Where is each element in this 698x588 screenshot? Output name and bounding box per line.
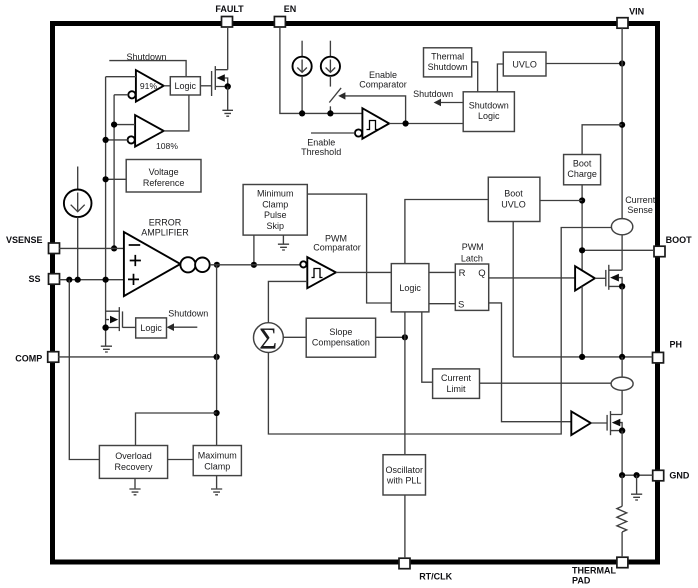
svg-text:Enable: Enable	[369, 70, 397, 80]
logic U-fault	[170, 77, 200, 95]
wire low side FET source to GND rail	[621, 431, 623, 476]
wire overload recovery to maximum clamp	[168, 459, 194, 461]
wire logic to latch R	[429, 271, 455, 273]
svg-text:Shutdown: Shutdown	[413, 89, 453, 99]
svg-text:FAULT: FAULT	[215, 4, 244, 14]
maximum clamp box	[193, 446, 241, 476]
wire minimum clamp drop to error amp output	[253, 235, 255, 265]
wire driver output to low side FET gate	[591, 422, 607, 424]
ground (minimum clamp)	[278, 235, 289, 250]
wire error amp output to PWM comparator	[210, 264, 301, 266]
minimum clamp pulse skip box	[243, 185, 307, 236]
svg-text:Boot: Boot	[504, 189, 523, 199]
svg-text:SS: SS	[28, 274, 40, 284]
svg-text:Minimum: Minimum	[257, 189, 294, 199]
junction	[634, 472, 640, 478]
wire sigma to PWM comparator lower input	[268, 281, 307, 322]
wire SS	[59, 279, 124, 281]
wire boot charge down to BOOT rail	[581, 185, 583, 271]
current source I-SS	[64, 167, 92, 280]
svg-text:PAD: PAD	[572, 576, 591, 586]
junction	[66, 277, 72, 283]
wire UVLO to shutdown logic	[497, 64, 503, 92]
slope compensation box	[306, 318, 375, 357]
voltage reference box	[126, 160, 201, 193]
svg-text:Maximum: Maximum	[198, 451, 237, 461]
wire transistor source down	[227, 87, 229, 111]
gm output circles	[180, 257, 209, 272]
pin BOOT	[654, 235, 692, 257]
svg-text:Oscillator: Oscillator	[385, 465, 423, 475]
wire rail to 108% inverting input	[106, 139, 128, 141]
svg-text:Current: Current	[441, 373, 472, 383]
svg-text:Skip: Skip	[266, 221, 284, 231]
node Current Sense label (high side)	[625, 195, 656, 215]
junction	[619, 60, 625, 66]
gate driver high side	[575, 266, 595, 290]
svg-text:Enable: Enable	[307, 137, 335, 147]
wire EN pin down and right to enable comparator	[280, 27, 363, 113]
pin THERMAL PAD	[572, 557, 628, 585]
junction	[327, 110, 333, 116]
svg-text:Shutdown: Shutdown	[469, 100, 509, 110]
junction	[103, 277, 109, 283]
pin PH	[653, 340, 683, 363]
wire thermal shutdown to shutdown logic	[472, 62, 478, 92]
current sense element (low side)	[611, 377, 633, 390]
wire boot UVLO left to logic	[405, 200, 488, 264]
wire PH rail	[513, 356, 652, 358]
svg-text:Logic: Logic	[175, 81, 197, 91]
svg-text:Comparator: Comparator	[313, 243, 361, 253]
node feedback rail (VSENSE to 91% -, 108% +)	[113, 95, 115, 249]
IC outer boundary	[53, 24, 658, 563]
svg-text:Latch: Latch	[461, 253, 483, 263]
wire driver output to high side FET gate	[595, 277, 606, 279]
wire current limit to low side current sense	[480, 382, 612, 384]
svg-text:Shutdown: Shutdown	[428, 62, 468, 72]
transistor Q-fault	[212, 66, 231, 96]
wire rail to voltage reference	[106, 178, 127, 180]
pin VSENSE	[6, 235, 60, 253]
svg-text:Overload: Overload	[115, 451, 152, 461]
wire logic to latch S	[429, 303, 455, 305]
junction	[251, 262, 257, 268]
wire VIN rail	[621, 28, 623, 219]
pin VIN	[617, 7, 644, 29]
wire 91% output to logic	[164, 85, 171, 87]
wire feedback to 91% inverting input	[114, 94, 128, 96]
junction	[103, 176, 109, 182]
wire VIN to high side FET drain	[621, 235, 623, 270]
wire PH rail down to low side current sense	[621, 357, 623, 377]
node Shutdown output arrow from shutdown logic	[413, 89, 463, 106]
overload recovery box	[99, 446, 167, 479]
wire GND node down to sense resistor	[621, 475, 623, 506]
wire high side FET source to PH rail	[621, 286, 623, 357]
pin FAULT	[215, 4, 244, 27]
junction	[103, 137, 109, 143]
svg-text:Limit: Limit	[446, 384, 466, 394]
junction VSENSE node	[111, 245, 117, 251]
comparator 91%	[128, 70, 163, 102]
wire branch to overload recovery	[136, 413, 217, 446]
svg-text:VSENSE: VSENSE	[6, 235, 43, 245]
svg-text:Pulse: Pulse	[264, 210, 287, 220]
svg-text:Logic: Logic	[140, 323, 162, 333]
wire comparator output feedback to switch with arrow	[338, 92, 405, 123]
svg-text:R: R	[459, 268, 466, 279]
svg-text:Sense: Sense	[627, 205, 653, 215]
comparator 108%	[128, 115, 179, 151]
boot UVLO box	[488, 177, 540, 221]
svg-text:UVLO: UVLO	[512, 60, 537, 70]
current sense element (high side)	[611, 219, 632, 235]
svg-text:Reference: Reference	[143, 178, 185, 188]
wire logic to fault transistor gate	[200, 85, 211, 87]
wire boot charge to VIN rail	[582, 125, 622, 155]
wire SS node to overload recovery	[69, 280, 99, 460]
svg-text:VIN: VIN	[629, 7, 644, 17]
wire FAULT pin to transistor drain	[227, 27, 229, 70]
svg-text:with PLL: with PLL	[386, 476, 422, 486]
svg-text:Voltage: Voltage	[149, 167, 179, 177]
wire UVLO to VIN rail	[546, 63, 622, 65]
wire COMP node vertical to maximum clamp	[216, 265, 218, 446]
svg-text:Clamp: Clamp	[204, 461, 230, 471]
wire logic down to oscillator	[404, 312, 406, 455]
wire feedback to 108% plus input	[114, 124, 135, 126]
svg-text:Thermal: Thermal	[431, 51, 464, 61]
junction	[214, 410, 220, 416]
wire current sense feedback loop to sigma	[268, 228, 611, 435]
logic U-discharge	[136, 318, 167, 338]
junction COMP node	[214, 354, 220, 360]
comparator U-PWM	[300, 257, 336, 288]
wire GND rail	[622, 474, 653, 476]
current limit box	[433, 369, 480, 399]
junction	[619, 122, 625, 128]
svg-text:Clamp: Clamp	[262, 199, 288, 209]
ground (overload recovery)	[129, 478, 140, 494]
wire logic to current limit	[422, 312, 433, 382]
svg-text:UVLO: UVLO	[501, 199, 526, 209]
current source Ihys1	[293, 41, 312, 114]
gate driver low side	[571, 411, 591, 435]
boot charge box	[564, 155, 601, 185]
node PWM Comparator label	[313, 233, 361, 252]
wire boot UVLO bottom to PH rail	[512, 222, 514, 357]
node reference rail (91% +, 108% -, Vref, SS, discharge FET)	[105, 77, 107, 347]
ground (maximum clamp)	[211, 476, 222, 495]
node Enable Threshold input	[301, 133, 355, 157]
wire oscillator to RT/CLK pin	[404, 495, 406, 558]
svg-text:COMP: COMP	[15, 354, 42, 364]
wire 108% output to logic	[164, 95, 189, 131]
svg-text:BOOT: BOOT	[666, 235, 693, 245]
wire sigma to slope compensation	[283, 336, 306, 338]
switch (hysteresis current)	[329, 88, 341, 114]
svg-text:GND: GND	[669, 470, 690, 480]
wire BOOT	[582, 249, 654, 251]
svg-text:PWM: PWM	[462, 242, 484, 252]
wire enable comparator output to shutdown logic	[389, 123, 463, 125]
svg-text:Threshold: Threshold	[301, 147, 341, 157]
svg-text:Shutdown: Shutdown	[168, 309, 208, 319]
comparator U-enable	[355, 108, 389, 139]
junction	[75, 277, 81, 283]
pin SS	[28, 274, 59, 285]
junction error amp output	[214, 262, 220, 268]
svg-text:Q: Q	[478, 268, 485, 279]
ground (discharge FET)	[101, 346, 112, 352]
junction	[579, 354, 585, 360]
op-amp U-error (error amplifier)	[124, 217, 189, 296]
logic box (main)	[391, 264, 429, 312]
wire rail to 91% plus input	[106, 76, 136, 78]
oscillator with PLL box	[383, 455, 426, 495]
UVLO box	[503, 52, 546, 76]
svg-text:Boot: Boot	[573, 158, 592, 168]
svg-text:EN: EN	[284, 4, 297, 14]
ground (fault transistor)	[222, 110, 233, 116]
wire slope compensation to logic rail	[376, 336, 405, 338]
ground (GND pin)	[631, 475, 642, 500]
svg-text:Recovery: Recovery	[114, 462, 153, 472]
svg-text:Logic: Logic	[478, 111, 500, 121]
svg-text:Comparator: Comparator	[359, 79, 407, 89]
pin RT/CLK	[399, 558, 453, 581]
svg-text:PH: PH	[670, 340, 683, 350]
svg-text:Charge: Charge	[567, 169, 597, 179]
svg-text:Compensation: Compensation	[312, 338, 370, 348]
junction	[403, 120, 409, 126]
svg-text:91%: 91%	[140, 81, 158, 91]
junction	[619, 472, 625, 478]
svg-text:S: S	[458, 299, 464, 310]
wire COMP	[58, 356, 217, 358]
wire PWM comparator output to logic	[336, 271, 391, 273]
svg-text:THERMAL: THERMAL	[572, 566, 616, 576]
wire VSENSE	[59, 247, 124, 249]
junction	[299, 110, 305, 116]
pin GND	[653, 470, 690, 481]
svg-text:ERROR: ERROR	[149, 217, 182, 227]
junction	[619, 354, 625, 360]
svg-text:Slope: Slope	[329, 327, 352, 337]
current source Ihys2	[321, 41, 340, 87]
svg-text:Logic: Logic	[399, 283, 421, 293]
node Enable Comparator label	[359, 70, 407, 90]
wire latch Q to high side driver	[489, 277, 575, 279]
svg-text:108%: 108%	[156, 141, 178, 151]
transistor Q-low (low side power FET)	[607, 411, 625, 435]
pin EN	[274, 4, 296, 27]
wire minimum clamp to logic	[307, 194, 391, 303]
PWM latch	[455, 264, 488, 310]
wire resistor to thermal pad	[621, 532, 623, 557]
wire current sense to low side FET drain	[621, 390, 623, 414]
svg-text:Current: Current	[625, 195, 656, 205]
svg-text:Σ: Σ	[259, 321, 277, 356]
junction	[111, 122, 117, 128]
pin COMP	[15, 352, 58, 364]
node Shutdown (discharge) label and arrow	[167, 309, 209, 331]
transistor Q-discharge (SS discharge FET)	[102, 307, 135, 331]
junction	[579, 197, 585, 203]
transistor Q-high (high side power FET)	[606, 265, 626, 290]
junction	[579, 247, 585, 253]
summer (sigma)	[254, 321, 284, 356]
svg-text:RT/CLK: RT/CLK	[419, 571, 452, 581]
wire BOOT rail through driver to PH rail	[581, 286, 583, 357]
thermal shutdown box	[424, 48, 472, 77]
svg-text:AMPLIFIER: AMPLIFIER	[141, 227, 189, 237]
wire boot UVLO right to boot charge rail	[540, 200, 582, 202]
junction	[402, 334, 408, 340]
wire latch to low side driver	[489, 303, 572, 422]
shutdown logic box	[463, 92, 514, 132]
resistor R-sense	[617, 506, 627, 532]
node Shutdown (top-left label with line into logic)	[109, 52, 186, 77]
node PWM Latch label	[461, 242, 484, 263]
